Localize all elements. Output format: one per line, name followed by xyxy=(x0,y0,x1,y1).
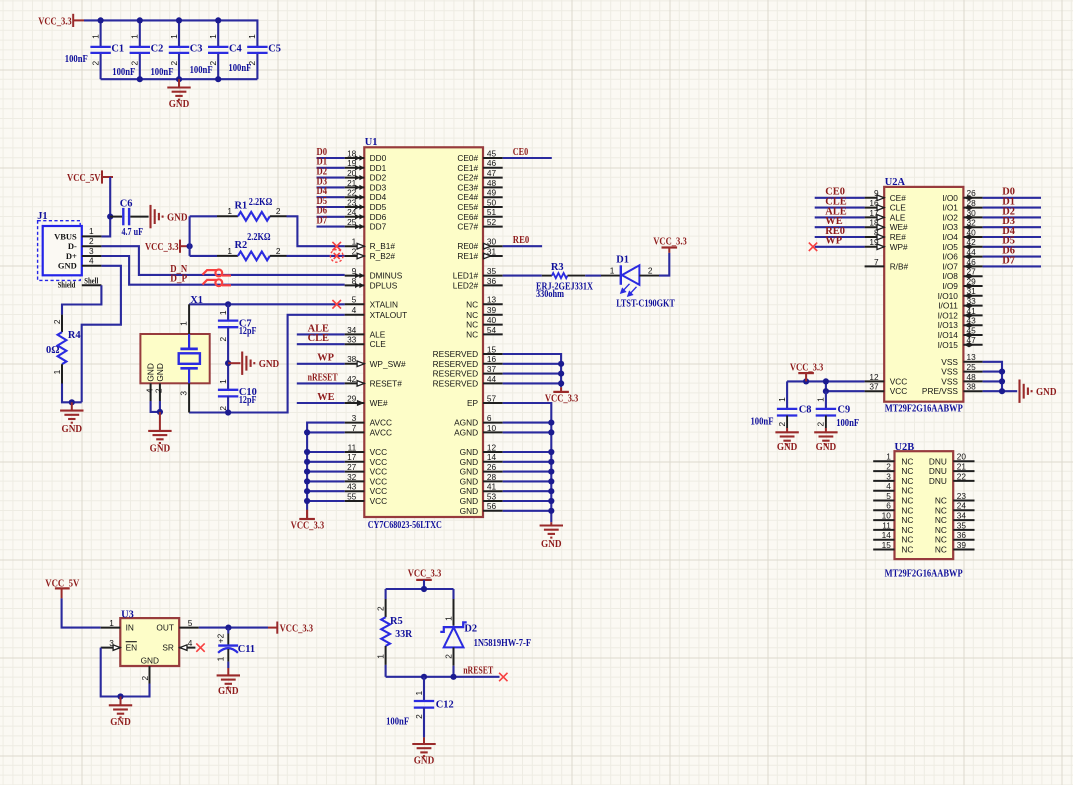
wire R3 to D1 xyxy=(585,275,601,277)
svg-text:WP_SW#: WP_SW# xyxy=(370,359,406,369)
svg-text:2: 2 xyxy=(414,714,424,719)
svg-text:CE#: CE# xyxy=(890,193,907,203)
svg-text:VCC_3.3: VCC_3.3 xyxy=(408,569,442,580)
svg-text:C6: C6 xyxy=(120,199,133,210)
wire C9 link xyxy=(825,381,827,391)
svg-text:GND: GND xyxy=(218,686,239,697)
wire XTALIN net xyxy=(189,303,345,305)
svg-text:1: 1 xyxy=(208,34,218,39)
svg-text:48: 48 xyxy=(967,372,977,382)
svg-text:2: 2 xyxy=(52,319,62,324)
svg-text:VCC: VCC xyxy=(370,486,388,496)
wire VCC_5V to J1 pin1 xyxy=(101,177,110,236)
svg-text:100nF: 100nF xyxy=(228,63,251,74)
svg-text:VCC_3.3: VCC_3.3 xyxy=(38,16,72,27)
svg-text:VBUS: VBUS xyxy=(54,231,77,241)
svg-text:I/O14: I/O14 xyxy=(938,330,959,340)
node VCC junctions xyxy=(803,378,829,394)
svg-text:2: 2 xyxy=(130,61,140,66)
svg-text:R2: R2 xyxy=(235,240,248,251)
svg-text:1: 1 xyxy=(352,237,357,247)
power port VCC_3.3 (U3 out) xyxy=(268,622,313,635)
wire net nRESET xyxy=(297,382,345,384)
svg-text:DMINUS: DMINUS xyxy=(370,271,403,281)
svg-text:R5: R5 xyxy=(390,616,403,627)
svg-text:GND: GND xyxy=(259,359,280,370)
resistor R2 xyxy=(217,232,287,260)
svg-text:DNU: DNU xyxy=(929,456,947,466)
svg-text:U2B: U2B xyxy=(895,442,915,453)
svg-text:2: 2 xyxy=(154,388,164,393)
svg-text:NC: NC xyxy=(935,525,947,535)
wire net RE0 xyxy=(503,245,542,247)
svg-text:54: 54 xyxy=(487,325,497,335)
svg-text:13: 13 xyxy=(967,352,977,362)
node XTALOUT C10 tap xyxy=(225,409,231,415)
svg-text:5: 5 xyxy=(188,618,193,628)
svg-text:EP: EP xyxy=(467,398,479,408)
svg-text:VCC_3.3: VCC_3.3 xyxy=(280,623,314,634)
resistor R5 xyxy=(375,589,412,665)
capacitor C10 xyxy=(218,379,257,413)
ic U2B body xyxy=(885,442,964,580)
ground (C12) xyxy=(412,737,435,766)
svg-text:R3: R3 xyxy=(551,262,564,273)
svg-text:NC: NC xyxy=(901,496,913,506)
svg-text:I/O8: I/O8 xyxy=(942,271,958,281)
svg-text:D2: D2 xyxy=(464,624,477,635)
diff pair marker D_N xyxy=(203,270,232,277)
svg-text:2: 2 xyxy=(443,654,453,659)
svg-text:1: 1 xyxy=(375,654,385,659)
svg-text:D-: D- xyxy=(68,241,77,251)
svg-text:4: 4 xyxy=(352,305,357,315)
svg-text:1: 1 xyxy=(414,691,424,696)
svg-text:38: 38 xyxy=(347,354,357,364)
svg-text:37: 37 xyxy=(487,364,497,374)
svg-text:12pF: 12pF xyxy=(239,326,257,337)
svg-text:NC: NC xyxy=(466,310,478,320)
wire net D7 (U1) xyxy=(317,226,345,228)
svg-text:RESERVED: RESERVED xyxy=(433,349,479,359)
wire net WP (U2A) xyxy=(815,246,865,248)
svg-text:I/O9: I/O9 xyxy=(942,281,958,291)
svg-text:7: 7 xyxy=(352,423,357,433)
svg-text:17: 17 xyxy=(347,452,357,462)
svg-text:56: 56 xyxy=(487,501,497,511)
svg-text:NC: NC xyxy=(901,525,913,535)
svg-text:DD2: DD2 xyxy=(370,173,387,183)
svg-text:NC: NC xyxy=(901,466,913,476)
svg-text:0Ω: 0Ω xyxy=(46,345,60,356)
svg-text:34: 34 xyxy=(347,325,357,335)
svg-text:NC: NC xyxy=(466,329,478,339)
svg-text:VSS: VSS xyxy=(941,357,958,367)
wire net D6 (U2A) xyxy=(983,256,1041,258)
svg-text:GND: GND xyxy=(460,486,478,496)
wire U2A VCC12 xyxy=(787,380,865,382)
svg-text:1: 1 xyxy=(218,379,228,384)
svg-text:C12: C12 xyxy=(436,700,454,711)
svg-text:RESERVED: RESERVED xyxy=(433,369,479,379)
svg-text:X1: X1 xyxy=(190,295,203,306)
wire R5 bottom xyxy=(385,665,387,677)
svg-text:DD0: DD0 xyxy=(370,153,387,163)
svg-text:3: 3 xyxy=(352,413,357,423)
resistor R3 xyxy=(536,262,593,300)
svg-text:NC: NC xyxy=(901,456,913,466)
svg-text:I/O10: I/O10 xyxy=(938,291,959,301)
wire net CLE (U2A) xyxy=(815,207,865,209)
wire net CLE xyxy=(297,343,345,345)
svg-text:GND: GND xyxy=(460,457,478,467)
no-ERC marker R_B2 dashed circle xyxy=(330,250,343,263)
svg-text:42: 42 xyxy=(347,374,357,384)
svg-text:AGND: AGND xyxy=(454,418,478,428)
power port VCC_3.3 (pullups) xyxy=(145,240,191,254)
svg-text:RESERVED: RESERVED xyxy=(433,359,479,369)
svg-text:U3: U3 xyxy=(121,609,134,620)
svg-text:GND: GND xyxy=(777,442,798,453)
ic U3 body xyxy=(120,609,179,666)
svg-text:2: 2 xyxy=(276,246,281,256)
ground (U2A) xyxy=(1020,380,1057,403)
svg-text:I/O11: I/O11 xyxy=(938,301,958,311)
svg-text:12: 12 xyxy=(487,442,497,452)
svg-text:I/O4: I/O4 xyxy=(942,232,958,242)
svg-text:VCC: VCC xyxy=(370,476,388,486)
svg-text:1: 1 xyxy=(777,397,787,402)
svg-text:5: 5 xyxy=(352,295,357,305)
wire D2 bottom / net nRESET xyxy=(452,666,454,677)
svg-text:NC: NC xyxy=(901,515,913,525)
node C7 C10 gnd tap xyxy=(225,360,231,366)
svg-text:AGND: AGND xyxy=(454,427,478,437)
no-ERC marker nRESET xyxy=(499,673,507,681)
wire net D_P xyxy=(101,256,344,285)
svg-text:GND: GND xyxy=(460,476,478,486)
ground (J1/R4) xyxy=(60,402,83,435)
svg-text:XTALIN: XTALIN xyxy=(370,299,398,309)
ground (C8) xyxy=(775,428,798,453)
svg-text:49: 49 xyxy=(487,188,497,198)
ground (C6) xyxy=(151,205,188,228)
wire XTALOUT net xyxy=(189,315,345,413)
svg-text:D1: D1 xyxy=(616,255,629,266)
svg-text:CE4#: CE4# xyxy=(457,192,478,202)
svg-text:51: 51 xyxy=(487,207,497,217)
node C11 tap xyxy=(225,625,231,631)
svg-text:2: 2 xyxy=(89,236,94,246)
svg-text:CE6#: CE6# xyxy=(457,212,478,222)
svg-text:NC: NC xyxy=(935,535,947,545)
capacitor C8 xyxy=(751,381,812,428)
svg-text:VCC_3.3: VCC_3.3 xyxy=(291,521,325,532)
svg-text:33: 33 xyxy=(347,335,357,345)
wire net ALE (U2A) xyxy=(815,216,865,218)
svg-text:D7: D7 xyxy=(1002,255,1015,266)
wire net D5 (U1) xyxy=(317,206,345,208)
svg-text:1: 1 xyxy=(179,321,189,326)
svg-text:100nF: 100nF xyxy=(836,418,859,429)
svg-text:34: 34 xyxy=(957,511,967,521)
svg-text:DD3: DD3 xyxy=(370,182,387,192)
svg-text:2: 2 xyxy=(218,337,228,342)
svg-text:GND: GND xyxy=(110,717,131,728)
svg-text:DD1: DD1 xyxy=(370,163,387,173)
wire net WE xyxy=(297,402,345,404)
wire net D0 (U1) xyxy=(317,157,345,159)
svg-text:CE7#: CE7# xyxy=(457,222,478,232)
svg-text:C8: C8 xyxy=(799,405,812,416)
svg-text:XTALOUT: XTALOUT xyxy=(370,310,408,320)
wire VCC to R1 R2 xyxy=(189,216,191,256)
svg-text:6: 6 xyxy=(886,501,891,511)
wire D1 to VCC xyxy=(659,253,669,276)
wire cap bottom bus xyxy=(101,78,258,80)
svg-text:ALE: ALE xyxy=(370,329,386,339)
svg-text:28: 28 xyxy=(487,472,497,482)
svg-text:CLE: CLE xyxy=(890,203,907,213)
wire U3 GND pin xyxy=(121,684,150,697)
svg-text:2: 2 xyxy=(777,422,787,427)
svg-text:VCC: VCC xyxy=(890,386,908,396)
svg-text:+2: +2 xyxy=(216,633,226,643)
svg-text:SR: SR xyxy=(162,643,174,653)
svg-text:R_B1#: R_B1# xyxy=(370,241,396,251)
svg-text:2: 2 xyxy=(169,61,179,66)
svg-text:39: 39 xyxy=(487,305,497,315)
svg-text:GND: GND xyxy=(58,261,77,271)
svg-text:GND: GND xyxy=(141,655,159,665)
svg-text:1: 1 xyxy=(227,206,232,216)
no-ERC marker WP end xyxy=(809,243,817,251)
svg-text:24: 24 xyxy=(957,501,967,511)
wire R1 to U1 R_B1# xyxy=(287,216,345,246)
ic U1 right pins xyxy=(433,148,503,515)
svg-text:NC: NC xyxy=(901,545,913,555)
svg-text:3: 3 xyxy=(89,246,94,256)
wire U1 GND bus xyxy=(503,403,552,522)
wire net CE0 (U2A) xyxy=(815,197,865,199)
capacitor C4 xyxy=(208,20,242,79)
svg-text:1: 1 xyxy=(52,369,62,374)
node R4 gnd junction xyxy=(69,399,75,405)
svg-text:40: 40 xyxy=(487,315,497,325)
svg-text:RE0: RE0 xyxy=(513,235,529,246)
svg-text:nRESET: nRESET xyxy=(308,372,338,383)
svg-text:5: 5 xyxy=(886,491,891,501)
svg-text:100nF: 100nF xyxy=(65,54,88,65)
svg-text:NC: NC xyxy=(901,486,913,496)
svg-text:2: 2 xyxy=(648,265,653,275)
resistor R4 xyxy=(46,315,81,384)
power port VCC_3.3 (U1 reserved) xyxy=(545,387,579,404)
svg-text:35: 35 xyxy=(487,266,497,276)
svg-text:MT29F2G16AABWP: MT29F2G16AABWP xyxy=(885,568,964,579)
svg-text:43: 43 xyxy=(347,482,357,492)
svg-text:I/O3: I/O3 xyxy=(942,222,958,232)
svg-text:I/O1: I/O1 xyxy=(942,203,958,213)
svg-text:4: 4 xyxy=(188,638,193,648)
wire Shell to R4 xyxy=(62,285,101,314)
node U2A vss junctions xyxy=(999,369,1005,395)
svg-text:R4: R4 xyxy=(68,330,81,341)
capacitor C7 xyxy=(218,304,257,390)
svg-text:46: 46 xyxy=(487,158,497,168)
node U1 vcc bus junctions xyxy=(304,429,310,504)
svg-text:GND: GND xyxy=(541,539,562,550)
svg-text:RESERVED: RESERVED xyxy=(433,378,479,388)
wire net RE0 (U2A) xyxy=(815,236,865,238)
capacitor C3 xyxy=(169,20,203,79)
svg-text:DD4: DD4 xyxy=(370,192,387,202)
svg-text:J1: J1 xyxy=(37,211,47,222)
svg-text:2: 2 xyxy=(886,462,891,472)
svg-text:DNU: DNU xyxy=(929,476,947,486)
node U1 gnd junctions xyxy=(548,420,554,514)
svg-text:44: 44 xyxy=(487,374,497,384)
svg-text:21: 21 xyxy=(957,462,967,472)
ic U2B right pins xyxy=(929,452,975,555)
svg-text:WP#: WP# xyxy=(890,242,908,252)
wire net D4 (U2A) xyxy=(983,236,1041,238)
svg-text:2: 2 xyxy=(352,246,357,256)
svg-text:VCC: VCC xyxy=(370,496,388,506)
no-ERC marker SR xyxy=(196,643,204,651)
svg-text:32: 32 xyxy=(347,472,357,482)
svg-text:C1: C1 xyxy=(111,44,124,55)
wire LED1 to R3 xyxy=(503,275,542,277)
svg-text:I/O2: I/O2 xyxy=(942,212,958,222)
svg-text:NC: NC xyxy=(901,476,913,486)
svg-text:1: 1 xyxy=(130,34,140,39)
svg-text:1: 1 xyxy=(109,618,114,628)
svg-text:CLE: CLE xyxy=(370,339,387,349)
svg-text:48: 48 xyxy=(487,178,497,188)
svg-text:DNU: DNU xyxy=(929,466,947,476)
capacitor C6 xyxy=(110,199,148,239)
svg-text:13: 13 xyxy=(487,295,497,305)
diff pair marker D_P xyxy=(203,279,232,286)
svg-text:1: 1 xyxy=(216,656,226,661)
svg-text:VSS: VSS xyxy=(941,376,958,386)
svg-text:52: 52 xyxy=(487,217,497,227)
ic U2A left pins xyxy=(865,188,909,396)
wire net WP xyxy=(297,363,345,365)
svg-text:GND: GND xyxy=(460,447,478,457)
svg-text:I/O7: I/O7 xyxy=(942,261,958,271)
svg-text:1: 1 xyxy=(443,616,453,621)
svg-text:GND: GND xyxy=(167,213,188,224)
no-ERC marker XTALIN xyxy=(332,300,341,309)
power port VCC_5V (U3) xyxy=(45,578,79,598)
svg-text:26: 26 xyxy=(487,462,497,472)
power port VCC_5V xyxy=(67,170,113,184)
wire net D1 (U1) xyxy=(317,167,345,169)
svg-text:VSS: VSS xyxy=(941,367,958,377)
svg-text:16: 16 xyxy=(487,354,497,364)
svg-text:GND: GND xyxy=(169,99,190,110)
ic U2A right pins xyxy=(922,188,983,396)
wire net D4 (U1) xyxy=(317,196,345,198)
svg-text:1: 1 xyxy=(218,310,228,315)
ground (crystal) xyxy=(148,412,171,455)
svg-text:3: 3 xyxy=(886,471,891,481)
svg-text:C5: C5 xyxy=(268,44,281,55)
wire U1 RESERVED bus xyxy=(503,354,561,387)
svg-text:45: 45 xyxy=(487,148,497,158)
svg-text:I/O12: I/O12 xyxy=(938,310,959,320)
wire net D2 (U1) xyxy=(317,177,345,179)
svg-text:DD5: DD5 xyxy=(370,202,387,212)
svg-text:35: 35 xyxy=(957,520,967,530)
svg-text:NC: NC xyxy=(466,299,478,309)
power port VCC_3.3 (U2A) xyxy=(790,363,824,382)
svg-text:100nF: 100nF xyxy=(190,65,213,76)
svg-text:GND: GND xyxy=(1036,387,1057,398)
svg-text:VCC_3.3: VCC_3.3 xyxy=(145,242,179,253)
svg-text:GND: GND xyxy=(460,506,478,516)
value 100nF labels C1-C5 xyxy=(65,54,252,78)
svg-text:2: 2 xyxy=(140,676,150,681)
ground (C11) xyxy=(217,668,240,697)
svg-text:20: 20 xyxy=(957,452,967,462)
node C6 tap xyxy=(107,214,113,220)
svg-text:RE0#: RE0# xyxy=(457,241,478,251)
svg-text:GND: GND xyxy=(414,756,435,767)
svg-text:DD6: DD6 xyxy=(370,212,387,222)
svg-text:CE2#: CE2# xyxy=(457,173,478,183)
ground (cap bank) xyxy=(167,79,190,110)
wire R2 to U1 R_B2# xyxy=(287,255,345,257)
svg-text:U1: U1 xyxy=(365,137,378,148)
svg-text:1N5819HW-7-F: 1N5819HW-7-F xyxy=(474,638,531,649)
crystal X1 xyxy=(140,295,209,412)
wire net D1 (U2A) xyxy=(983,207,1041,209)
capacitor C11 polarized xyxy=(216,628,256,668)
wire R4 to ground xyxy=(62,384,82,403)
svg-text:27: 27 xyxy=(347,462,357,472)
svg-text:Shield: Shield xyxy=(58,280,76,290)
svg-text:VCC_3.3: VCC_3.3 xyxy=(790,363,824,374)
svg-text:PRE/VSS: PRE/VSS xyxy=(922,386,958,396)
svg-text:4: 4 xyxy=(886,481,891,491)
svg-text:I/O13: I/O13 xyxy=(938,320,959,330)
svg-text:GND: GND xyxy=(62,424,83,435)
svg-text:2.2KΩ: 2.2KΩ xyxy=(247,232,271,243)
wire J1 GND pin4 xyxy=(82,266,121,403)
svg-text:RE1#: RE1# xyxy=(457,251,478,261)
svg-text:Shell: Shell xyxy=(84,275,98,285)
ground (crystal caps) xyxy=(228,352,279,375)
capacitor C5 xyxy=(247,34,281,79)
power port VCC_3.3 (reset) xyxy=(408,569,442,590)
svg-text:CE3#: CE3# xyxy=(457,182,478,192)
wire VCC_5V to U3 IN xyxy=(62,598,101,627)
svg-text:CY7C68023-56LTXC: CY7C68023-56LTXC xyxy=(368,520,442,531)
svg-text:NC: NC xyxy=(466,320,478,330)
svg-text:1: 1 xyxy=(247,34,257,39)
svg-text:VCC: VCC xyxy=(890,376,908,386)
power port VCC_3.3 (D1) xyxy=(653,237,687,253)
svg-text:1: 1 xyxy=(816,397,826,402)
svg-text:CE1#: CE1# xyxy=(457,163,478,173)
ground (U1) xyxy=(540,522,563,550)
led D1 xyxy=(601,255,675,310)
svg-text:WE#: WE# xyxy=(370,398,388,408)
svg-text:LTST-C190GKT: LTST-C190GKT xyxy=(616,298,675,309)
